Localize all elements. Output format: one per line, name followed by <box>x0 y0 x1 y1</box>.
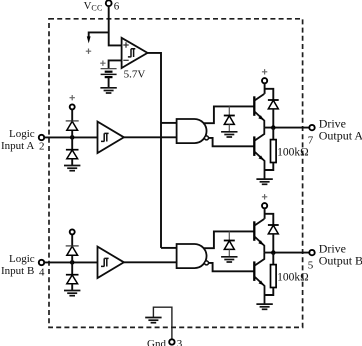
op-amp U1 undervoltage comparator <box>122 38 148 68</box>
Logic Input A label <box>1 128 45 152</box>
supply current arrow <box>87 32 109 43</box>
transistor Q1 (top, channel A) <box>254 94 264 128</box>
IC boundary (dashed box) <box>49 19 303 328</box>
ground (input A clamp) <box>64 166 80 171</box>
wire supply node B <box>265 208 274 224</box>
wire input A <box>44 136 97 138</box>
plus label (output stage A supply) <box>262 69 267 74</box>
wire pin 3 <box>171 327 173 339</box>
pin 6 Vcc terminal <box>84 0 120 12</box>
terminal (output stage B supply) <box>262 203 267 208</box>
diode D2 input A clamp to ground <box>66 137 79 165</box>
wire supply node A <box>265 83 274 99</box>
NAND gate U4 channel A <box>177 119 209 143</box>
svg-text:Output A: Output A <box>319 129 362 143</box>
ground (internal) <box>145 318 161 323</box>
terminal (output stage A supply) <box>262 78 267 83</box>
pin 2 input A terminal <box>39 135 44 140</box>
pin 3 Gnd terminal <box>169 339 174 344</box>
svg-text:Gnd: Gnd <box>147 338 166 346</box>
transistor Q4 (bottom, channel B) <box>254 253 264 304</box>
ground (rail clamp A) <box>221 132 237 137</box>
pin 7 drive output A terminal <box>309 125 314 130</box>
wire comparator output trunk <box>148 53 162 248</box>
diode D8 output clamp channel B <box>268 225 279 253</box>
svg-text:Logic: Logic <box>9 128 35 140</box>
transistor Q3 (top, channel B) <box>254 219 264 253</box>
battery 5.7V reference <box>101 69 117 88</box>
node input B junction <box>70 260 75 265</box>
diode D3 rail clamp channel A <box>224 106 235 131</box>
wire NAND A to top rail <box>203 106 254 123</box>
node output B junction <box>271 250 276 255</box>
svg-text:Logic: Logic <box>9 253 35 265</box>
plus label (input A clamp) <box>70 95 75 100</box>
plus label (output stage B supply) <box>262 194 267 199</box>
wire output node A <box>264 127 309 129</box>
wire output node B <box>264 252 309 254</box>
wire input B <box>44 261 97 263</box>
diode D1 input A clamp to Vcc <box>66 109 79 137</box>
wire NAND B bubble to bottom rail <box>208 263 254 271</box>
node output A junction <box>271 125 276 130</box>
svg-text:5.7V: 5.7V <box>124 68 146 80</box>
svg-text:3: 3 <box>177 338 183 346</box>
svg-text:7: 7 <box>308 135 314 147</box>
wire trunk to NAND B top input <box>161 247 177 249</box>
svg-text:4: 4 <box>39 266 45 278</box>
terminal (input B clamp supply) <box>70 229 75 234</box>
diode D4 output clamp channel A <box>268 100 279 128</box>
plus label (supply polarity) <box>86 49 91 54</box>
wire ground internal <box>153 307 172 327</box>
ground (input B clamp) <box>64 291 80 296</box>
svg-text:2: 2 <box>39 140 45 152</box>
wire comparator minus input <box>109 60 122 68</box>
svg-text:Input B: Input B <box>1 265 34 277</box>
wire Vcc trunk <box>109 6 122 46</box>
ground (rail clamp B) <box>221 257 237 262</box>
svg-text:100kΩ: 100kΩ <box>277 146 309 158</box>
plus label (battery polarity) <box>100 61 105 66</box>
svg-text:100kΩ: 100kΩ <box>277 271 309 283</box>
wire NAND B to top rail <box>203 231 254 248</box>
wire buffer A output to NAND A <box>124 136 177 138</box>
wire trunk to NAND A top input <box>161 122 177 124</box>
svg-text:6: 6 <box>114 0 120 12</box>
node input A junction <box>70 135 75 140</box>
schmitt buffer U2 input A <box>98 122 124 153</box>
ground (battery) <box>100 88 116 93</box>
pin 5 drive output B terminal <box>309 250 314 255</box>
resistor R1 100k channel A <box>265 128 277 170</box>
terminal (input A clamp supply) <box>70 104 75 109</box>
diode D5 input B clamp to Vcc <box>66 234 79 262</box>
svg-text:5: 5 <box>308 260 314 272</box>
NAND gate U5 channel B <box>177 244 209 268</box>
svg-text:Input A: Input A <box>1 140 34 152</box>
schmitt buffer U3 input B <box>98 247 124 278</box>
wire buffer B output to NAND B <box>124 261 177 263</box>
wire NAND A bubble to bottom rail <box>208 138 254 146</box>
ground (output stage B) <box>256 304 272 309</box>
svg-text:Output B: Output B <box>319 254 362 268</box>
pin 4 input B terminal <box>39 260 44 265</box>
diode D6 input B clamp to ground <box>66 262 79 290</box>
resistor R2 100k channel B <box>265 253 277 295</box>
Drive Output A label <box>319 116 362 142</box>
transistor Q2 (bottom, channel A) <box>254 128 264 179</box>
ground (output stage A) <box>256 179 272 184</box>
diode D7 rail clamp channel B <box>224 231 235 256</box>
